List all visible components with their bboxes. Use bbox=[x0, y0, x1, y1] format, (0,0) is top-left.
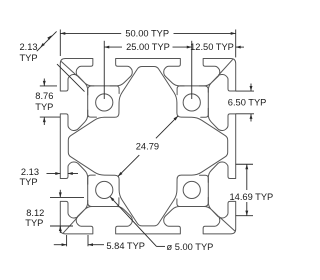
svg-text:24.79: 24.79 bbox=[136, 142, 159, 152]
svg-text:TYP: TYP bbox=[35, 102, 53, 112]
dimension 12.50 TYP (slot to edge) bbox=[236, 46, 244, 48]
screw-boss fillet corners at the four quadrant bosses bbox=[88, 86, 209, 207]
hole ø5.00 bottom-right bbox=[183, 181, 200, 198]
dimension 50.00 TYP (overall width) bbox=[60, 32, 121, 34]
corner web top-right bbox=[219, 60, 233, 75]
central star-shaped cavity (center void with four side arms) bbox=[68, 67, 227, 226]
svg-text:TYP: TYP bbox=[20, 177, 38, 187]
dimension 14.69 TYP (T-slot cavity width) bbox=[236, 163, 253, 165]
dimension 2.13 TYP mid-left (wall thickness) bbox=[47, 173, 61, 175]
svg-text:TYP: TYP bbox=[20, 53, 38, 63]
svg-text:14.69 TYP: 14.69 TYP bbox=[230, 192, 274, 202]
dimension 8.12 TYP lower-left bbox=[50, 196, 84, 198]
svg-text:TYP: TYP bbox=[25, 218, 43, 228]
dimension ø 5.00 TYP (hole diameter leader) bbox=[157, 245, 166, 247]
dimension 6.50 TYP (slot opening width) bbox=[236, 90, 254, 92]
corner web top-left bbox=[61, 62, 76, 76]
dimension 8.76 TYP (slot floor to boss bottom) bbox=[40, 85, 57, 87]
svg-text:8.12: 8.12 bbox=[26, 208, 44, 218]
svg-text:ø 5.00 TYP: ø 5.00 TYP bbox=[167, 242, 214, 252]
svg-text:8.76: 8.76 bbox=[35, 91, 53, 101]
svg-text:12.50 TYP: 12.50 TYP bbox=[190, 42, 234, 52]
svg-text:25.00 TYP: 25.00 TYP bbox=[126, 42, 170, 52]
dimension 5.84 TYP (bottom) bbox=[66, 235, 68, 246]
svg-text:5.84 TYP: 5.84 TYP bbox=[106, 241, 145, 251]
hole ø5.00 top-left bbox=[96, 94, 113, 111]
corner web bottom-left bbox=[63, 217, 77, 232]
dimension 25.00 TYP (slot spacing) bbox=[104, 46, 122, 48]
hole ø5.00 top-right bbox=[183, 94, 200, 111]
svg-text:6.50 TYP: 6.50 TYP bbox=[228, 98, 267, 108]
svg-text:50.00 TYP: 50.00 TYP bbox=[125, 28, 169, 38]
svg-text:2.13: 2.13 bbox=[20, 42, 38, 52]
hole ø5.00 bottom-left bbox=[96, 181, 113, 198]
svg-text:2.13: 2.13 bbox=[21, 167, 39, 177]
corner web bottom-right bbox=[219, 217, 234, 231]
dimension 2.13 TYP upper-left (web thickness) bbox=[57, 64, 85, 92]
dimension 24.79 (center cavity diagonal) bbox=[118, 155, 139, 176]
extrusion outer profile with eight T-slots and rounded corners bbox=[60, 59, 235, 234]
